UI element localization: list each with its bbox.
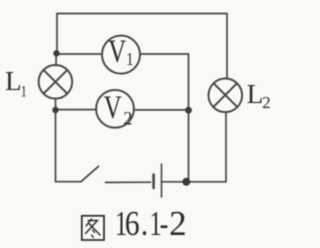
node A junction dot [53, 50, 59, 56]
voltmeter V2 circle [96, 90, 134, 128]
voltmeter V1 circle [102, 36, 140, 74]
caption text 16.1-2 [115, 204, 127, 243]
wire middle rail vertical [188, 54, 190, 182]
label L1 subscript 1 [21, 83, 27, 101]
voltmeter V2 label subscript 2 [123, 108, 132, 130]
battery positive long plate [161, 164, 163, 197]
wire node B to V2 [56, 109, 97, 111]
lamp L1 [39, 65, 73, 99]
label L2 subscript 2 [262, 93, 271, 112]
voltmeter V1 label V [108, 34, 126, 70]
svg-text:L: L [247, 79, 263, 109]
svg-text:6: 6 [125, 205, 140, 244]
lamp L2 [209, 79, 243, 113]
svg-text:-: - [160, 203, 169, 243]
svg-text:2: 2 [262, 93, 271, 112]
wire node A to V1 [57, 53, 103, 55]
wire V1 to middle rail [141, 53, 189, 55]
svg-text:2: 2 [169, 204, 187, 243]
battery negative short plate [152, 175, 155, 189]
switch S blade [81, 166, 99, 181]
wire top rail [57, 14, 227, 79]
voltmeter V2 label V [104, 90, 122, 126]
node D junction dot [182, 178, 190, 186]
svg-text:1: 1 [21, 83, 27, 101]
svg-text:L: L [5, 66, 22, 96]
node B junction dot [52, 107, 58, 113]
voltmeter V1 label subscript 1 [126, 48, 133, 69]
svg-text:V: V [108, 34, 126, 70]
caption character tu (drawn glyph) [82, 216, 104, 240]
wire V2 to node C [135, 109, 189, 111]
label L1 [5, 66, 22, 96]
wire L1 top lead [55, 53, 57, 65]
label L2 [247, 79, 263, 109]
node C junction dot [185, 107, 192, 114]
wire switch to battery [106, 181, 151, 183]
svg-text:.: . [141, 205, 148, 244]
svg-text:2: 2 [123, 108, 132, 130]
wire left rail down to switch [56, 110, 82, 182]
wire battery to bottom-right corner and up [162, 112, 227, 182]
wire L1 bottom lead [55, 99, 57, 110]
svg-text:1: 1 [126, 48, 133, 69]
svg-text:V: V [104, 90, 122, 126]
